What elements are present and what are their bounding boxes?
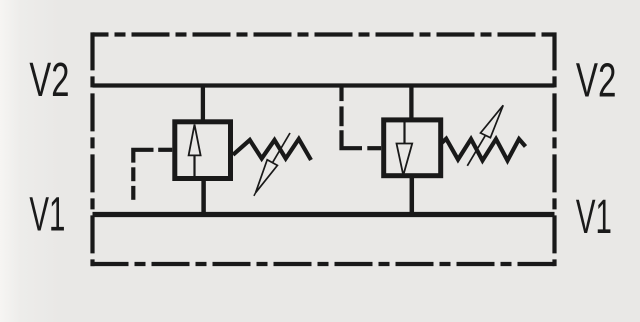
spring RV2	[441, 139, 526, 161]
relief valve RV2 flow arrow (down)	[397, 144, 413, 176]
adjustment arrow RV1 head (hollow, pointing down-left)	[256, 160, 278, 193]
enclosure border left (dash-dot)	[90, 32, 94, 266]
pilot line RV1 (dashed): stub to valve	[158, 148, 172, 152]
pilot line RV1 vertical dash b	[131, 186, 135, 200]
adjustment arrow RV2 shaft	[467, 135, 485, 166]
enclosure border right (dash-dot)	[552, 32, 556, 266]
pilot line RV2 (dashed): vertical dash at V2 line	[339, 86, 343, 101]
pilot line RV2 corner dash	[342, 130, 363, 148]
enclosure border top (dash-dot)	[93, 32, 555, 36]
relief valve RV1 flow arrow (up)	[189, 125, 201, 156]
svg-text:V1: V1	[576, 191, 612, 244]
pilot line RV2 vertical dash b	[339, 106, 343, 126]
wire: RV1 bottom stem	[201, 179, 206, 215]
wire: V1 port line	[93, 212, 555, 217]
wire: RV2 bottom stem	[410, 176, 415, 215]
spring RV1	[233, 139, 311, 160]
relief valve RV1 body	[175, 122, 231, 179]
wire: RV2 flow arrow tail	[403, 122, 405, 144]
enclosure border bottom (dash-dot)	[91, 262, 555, 266]
adjustment arrow RV1 shaft	[272, 133, 290, 163]
wire: RV2 top stem	[409, 86, 413, 123]
pilot line RV1 corner dash	[133, 150, 153, 163]
svg-text:V2: V2	[29, 54, 69, 107]
wire: V2 port line	[93, 83, 555, 87]
adjustment arrow RV1 apex tail	[254, 193, 256, 196]
pilot line RV1 vertical dash a	[131, 167, 135, 181]
adjustment arrow RV2 head (hollow, pointing up-right)	[481, 105, 504, 137]
pilot line RV2 stub to valve	[367, 146, 381, 150]
svg-text:V2: V2	[576, 55, 617, 108]
wire: RV1 top stem	[201, 86, 205, 123]
svg-text:V1: V1	[29, 189, 65, 242]
relief valve RV2 body	[384, 120, 441, 176]
wire: RV1 flow arrow tail	[193, 155, 195, 178]
